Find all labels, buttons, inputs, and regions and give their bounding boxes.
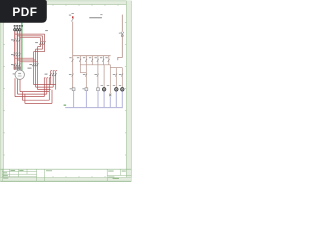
control bus upper: [73, 55, 111, 57]
title block right info text: [108, 171, 126, 178]
motor M1: [15, 70, 24, 79]
svg-text:PDF: PDF: [12, 5, 37, 19]
coil K1: [72, 88, 75, 91]
lamp H3: [115, 88, 118, 91]
wire control rail right upper: [121, 15, 123, 32]
title block middle divider: [44, 169, 46, 181]
transformer symbol on right rail: [121, 32, 124, 37]
branch drop wires from upper bus: [80, 56, 109, 88]
title block bottom frame line: [0, 180, 131, 182]
mid row contact on branch 2: [85, 74, 87, 77]
frame zone tick marks top edge: [53, 5, 118, 6]
label -M1: [13, 73, 15, 74]
disconnect Q2 right verticals: [41, 34, 45, 52]
sheet frame left border band: [0, 1, 3, 182]
label L1: [14, 25, 16, 26]
label -F2: [11, 64, 14, 65]
label N (green): [64, 104, 67, 106]
label -F1: [69, 15, 71, 16]
neutral drop wires (lavender): [74, 91, 123, 107]
title block right info box: [107, 169, 131, 181]
label near right rail top: [100, 13, 102, 16]
sheet frame right border band: [126, 1, 131, 182]
motor lead wires down: [15, 78, 20, 96]
neutral rail N: [65, 107, 123, 109]
label -Q2: [35, 42, 38, 43]
contactor K2 contacts: [32, 63, 38, 66]
title block revision table text: [3, 170, 24, 179]
wire jog branch S1 to K1: [80, 72, 86, 74]
lamp H4: [121, 88, 124, 91]
lamp H2 coil shape: [109, 94, 111, 97]
label -S2: [69, 74, 72, 75]
label PE: [21, 25, 23, 26]
frame zone tick marks right edge: [125, 22, 126, 155]
wire branch to disconnect Q2 (top horizontals): [15, 34, 45, 38]
control bus lower: [80, 64, 110, 66]
label branch lamp H3: [113, 74, 116, 75]
pin numbers K1: [14, 52, 20, 53]
supply terminal L3: [19, 27, 21, 31]
wire branch horizontals to K2 column: [15, 58, 38, 62]
label F2 setting: [28, 68, 32, 69]
label -K2: [29, 64, 32, 65]
branch wire lamp H4: [121, 68, 123, 88]
overload relay F2 element boxes: [14, 67, 21, 69]
branch wires below lower bus: [104, 65, 110, 94]
mid row contact S2 on left rail: [72, 74, 74, 77]
row of contact symbols under upper bus: [72, 59, 110, 62]
label near box top: [45, 30, 48, 31]
bottom zone band text: [113, 178, 119, 179]
title block middle text: [46, 169, 52, 172]
delta connection weave horizontals: [15, 85, 56, 104]
breaker Q1 contacts: [14, 39, 21, 42]
title block revision table: [2, 169, 36, 181]
drawing title text: [89, 17, 102, 18]
coil K2: [85, 88, 88, 91]
fuse F1: [71, 14, 74, 22]
supply terminal L2: [16, 27, 18, 31]
label coil K2: [82, 88, 84, 89]
frame zone tick marks left edge: [3, 22, 4, 155]
terminal cluster X1 verticals: [51, 71, 58, 90]
bottom zone band ticks: [53, 176, 105, 177]
branch wire lamp H3: [115, 68, 117, 88]
mid row contact on branch lamp H4: [121, 74, 123, 77]
lamp labels row: [101, 84, 122, 87]
label L3: [19, 25, 21, 26]
weave top hooks: [44, 77, 50, 79]
label branch 97.9: [95, 74, 98, 75]
wire control rail right lower: [118, 35, 123, 60]
label -T1: [119, 32, 121, 35]
PE earth conductor (green): [21, 23, 23, 71]
mid row contact on branch lamp H3: [115, 74, 117, 77]
wire phase verticals to motor: [15, 31, 20, 70]
wire control rail left: [72, 22, 74, 88]
overload relay F2 contacts: [14, 63, 21, 66]
title block top divider line: [0, 168, 131, 170]
label coil K1: [70, 88, 72, 89]
label L2: [16, 25, 18, 26]
coil K3: [97, 88, 100, 91]
sheet frame top border band: [0, 1, 131, 5]
delta connection weave verticals: [22, 78, 52, 104]
label branch lamp H4: [119, 74, 122, 75]
supply terminal L1: [14, 27, 16, 31]
contactor K1 contacts: [14, 53, 21, 56]
control bus third (right): [110, 67, 122, 69]
lamp H1: [102, 88, 105, 91]
terminal cluster X1 contacts: [50, 73, 57, 76]
disconnect Q2 bottom return horizontals: [34, 47, 45, 52]
label -K1: [11, 54, 14, 55]
label -Q1: [11, 39, 14, 40]
contact on branch 97.9 lower: [97, 74, 99, 77]
label -X1: [45, 74, 48, 75]
disconnect Q2 contacts: [40, 41, 46, 45]
sheet frame bottom zone band: [0, 177, 131, 181]
label -K1aux: [83, 74, 86, 75]
contact labels row: [69, 57, 108, 58]
PDF badge: [0, 0, 47, 23]
contactor K2 column verticals: [34, 47, 38, 90]
